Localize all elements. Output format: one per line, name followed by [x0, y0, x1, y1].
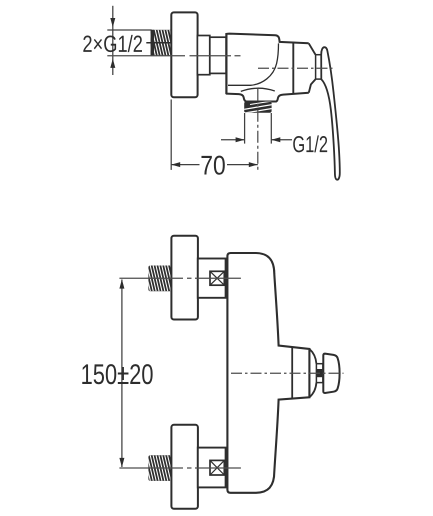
neck	[316, 55, 322, 79]
upper union nut	[198, 259, 226, 298]
interior chamber line	[228, 43, 279, 85]
body left edge	[225, 33, 227, 94]
handle lever blade	[321, 47, 340, 180]
cartridge cap separation ring	[292, 42, 294, 94]
extension line right of outlet	[270, 113, 272, 144]
cap front taper bottom	[309, 79, 316, 93]
set screw	[317, 369, 323, 377]
cone to neck top	[309, 349, 316, 364]
label 2xG1/2	[83, 35, 91, 51]
label G1/2	[293, 136, 304, 152]
lower thread nipple	[144, 455, 176, 481]
70 dimension line left with arrow	[171, 164, 199, 166]
mixer body outline (side view)	[226, 34, 315, 102]
cartridge housing ring line	[291, 347, 293, 399]
body bottom edge with outlet chin	[226, 93, 309, 102]
lower wall flange	[171, 425, 198, 509]
union hub section A	[197, 36, 209, 75]
G1/2 dimension line right part	[271, 139, 292, 141]
thread nipple (side view, wall connection)	[146, 30, 178, 56]
handle axis centerline	[231, 372, 344, 374]
wall flange escutcheon (side view)	[171, 12, 197, 97]
handle knob (end-on)	[323, 354, 339, 393]
70 dimension line right with arrow	[227, 164, 258, 166]
body top edge with step	[226, 34, 309, 44]
G1/2 dimension line left part	[221, 139, 245, 141]
outlet nut G1/2 (threaded)	[243, 101, 273, 113]
upper inlet centerline	[119, 277, 240, 279]
neck	[316, 364, 323, 383]
upper thread nipple	[144, 266, 176, 292]
lower inlet centerline	[119, 467, 240, 469]
mixer body outline (plan view)	[227, 253, 309, 493]
arrowhead down	[110, 18, 115, 27]
cone to neck bottom	[309, 383, 316, 398]
label 70	[201, 156, 211, 175]
150+-20 dimension line	[121, 280, 123, 468]
union hub section B	[210, 37, 226, 73]
upper wall flange	[171, 236, 198, 320]
upper seal box	[210, 271, 224, 285]
flange extension line	[170, 100, 172, 170]
inlet/dimension centerline (top view)	[107, 55, 240, 57]
label 150+-20	[82, 364, 91, 384]
cartridge axis centerline	[258, 67, 333, 69]
dimension 2xG1/2 dimension line	[112, 6, 114, 75]
lower seal box	[210, 460, 224, 475]
outlet axis centerline	[257, 89, 259, 172]
lower union nut	[198, 448, 226, 488]
extension line left of outlet	[244, 113, 246, 144]
arrowhead up	[110, 59, 115, 68]
cap front taper top	[309, 43, 316, 54]
outlet dome arc	[241, 88, 275, 91]
dimension 2xG1/2 extension line top	[107, 29, 151, 31]
